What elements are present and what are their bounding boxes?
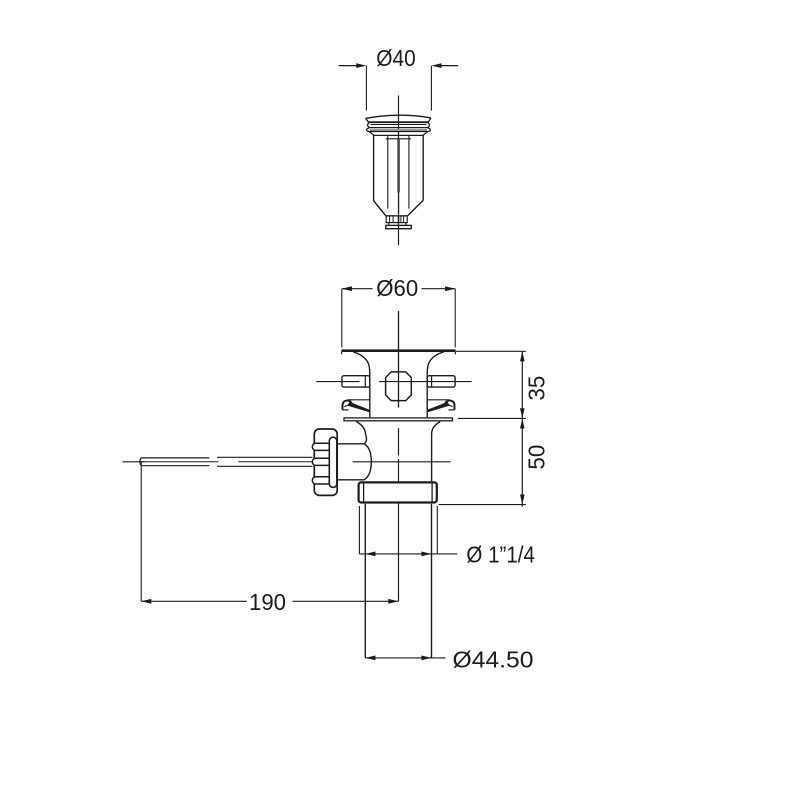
plug ring left bulge 2 [367,128,370,132]
plug crossbar line [386,138,411,140]
dimension 35-50 vertical line [521,351,523,506]
rod bottom line inner section [142,465,210,467]
dimension Ø60 line left segment [342,288,373,290]
plug neck taper right [423,132,428,136]
svg-text:50: 50 [524,445,550,470]
right claw inner diagonal [446,404,453,407]
plug bottom disc [386,225,411,228]
lug centerline left segment [316,381,359,383]
svg-text:35: 35 [524,376,550,401]
dimension Ø40 right leader line [440,65,458,67]
plug body top line [374,134,423,136]
knurled nut inner capsule [329,437,337,487]
dimension Ø60 right arrowhead [445,286,455,291]
dimension Ø60 left arrowhead [342,286,352,291]
plug inner left line [387,136,389,209]
svg-text:Ø60: Ø60 [376,275,418,301]
lower body right curve and wall [432,422,441,482]
horizontal centerline left dash [122,461,144,463]
plug ring right bulge 1 [427,122,430,127]
boss top line [338,443,364,445]
flange right end curl [454,351,455,354]
rod top line inner section [142,457,210,459]
dimension Ø40 left extension line [365,66,367,111]
plug ring gray band [370,129,427,131]
dimension Ø1-1/4 line [359,553,457,555]
plug center slot [397,139,400,193]
dimension 190 line right segment [293,600,399,602]
plug ring line 1 [371,124,427,126]
dimension 190 left arrowhead [141,599,151,604]
dimension 190 line left segment [141,600,247,602]
plug ring right bulge 2 [427,128,430,132]
dimension Ø40 left arrowhead [356,63,366,68]
knurled nut rib 1 [312,443,331,450]
dimension Ø44.50 left arrowhead [365,656,375,661]
dimension Ø44.50 line [365,657,445,659]
dimension Ø1-1/4 left extension line [358,506,360,554]
flange left trumpet curve and body wall [353,352,370,417]
rod centerline segment 1 [141,461,218,463]
right lug [427,376,455,387]
right lug inner line [431,376,433,387]
plug thread tick 2 [392,216,394,223]
plug thread tick 5 [403,216,405,223]
dimension 50 top arrowhead [520,418,525,428]
lock nut outline [359,482,437,502]
plug cap top [366,115,431,118]
body centerline upper [398,311,400,408]
knurled nut body [314,429,337,495]
plug cap left edge [366,118,369,122]
dimension Ø1-1/4 right extension line [436,506,438,554]
plug taper right [408,200,424,216]
knurled nut rib 2 [312,458,331,465]
left claw inner diagonal [344,404,351,407]
lock nut right inner line [431,482,433,504]
body centerline lower [398,428,400,455]
dimension 190 right arrowhead [388,599,398,604]
horizontal centerline right segment [353,461,451,463]
dimension 35 top arrowhead [520,351,525,361]
dimension Ø1-1/4 left arrowhead [365,552,375,557]
plug neck below thread right [405,223,407,226]
dimension Ø1-1/4 right arrowhead [421,552,431,557]
plug body left wall [373,135,375,200]
plug body right wall [422,135,424,200]
left lug [342,376,370,387]
flange top line [341,349,455,352]
center square opening [386,372,412,401]
left claw loop [343,401,352,410]
dimension Ø40 left leader line [339,65,358,67]
tailpipe left wall [364,504,366,658]
plug inner right line [408,136,410,209]
right claw loop [445,401,454,410]
rod bottom line sleeve section [217,465,313,467]
left claw top line [347,399,370,401]
flange right trumpet curve and body wall [427,352,444,417]
dimension Ø40 right arrowhead [431,63,441,68]
plug center slot lower thin line [398,194,400,214]
plug taper left [374,201,386,216]
dimension 50 bottom arrowhead [520,495,525,505]
knurled nut rib 3 [312,477,331,484]
dimension Ø44.50 right arrowhead [421,656,431,661]
right claw bottom tick [449,409,455,411]
rod left end cap [140,458,142,466]
svg-text:190: 190 [249,589,286,615]
plug ring left bulge 1 [368,122,371,127]
left claw wedge [347,402,370,413]
lug centerline middle segment [379,381,472,383]
plug thread block outline [386,216,407,223]
svg-text:Ø44.50: Ø44.50 [453,647,534,673]
plug cap bottom line [369,121,429,123]
flange left end curl [341,351,342,354]
plug thread tick 1 [389,216,391,223]
plug thread tick 4 [400,216,402,223]
plug thread tick 3 [398,216,400,223]
rod top line sleeve section [217,456,313,458]
svg-text:Ø 1”1/4: Ø 1”1/4 [466,542,535,568]
plug cap right edge [428,118,431,122]
tailpipe right wall [431,504,433,658]
dimension Ø60 right extension line [454,289,456,348]
dimension 50 bottom extension line [439,504,526,506]
dimension 190 left extension line [140,461,142,601]
plug centerline [398,96,400,246]
plug ring line 3 [369,131,427,133]
dimension 35 top extension line [456,350,526,352]
plug ring line 2 [370,127,427,129]
plug neck below thread left [388,223,390,226]
washer plate [344,418,453,421]
right claw top line [427,399,450,401]
left lug inner line [364,376,366,387]
left claw bottom tick [343,409,349,411]
plug thread top line [386,215,408,217]
lock nut left inner line [363,482,365,504]
body centerline through nut [398,459,400,601]
dimension Ø60 left extension line [341,289,343,348]
boss bulge [364,444,371,480]
right claw wedge [427,402,450,413]
dimension 35 bottom arrowhead [520,408,525,418]
dimension 35-50 middle extension line [458,417,526,419]
plug neck taper left [369,132,374,136]
boss bottom line [338,479,365,481]
dimension Ø60 line right segment [422,288,456,290]
lower body left curve [356,422,366,444]
svg-text:Ø40: Ø40 [376,45,416,71]
dimension Ø40 right extension line [430,66,432,111]
rod centerline segment 2 [238,461,312,463]
